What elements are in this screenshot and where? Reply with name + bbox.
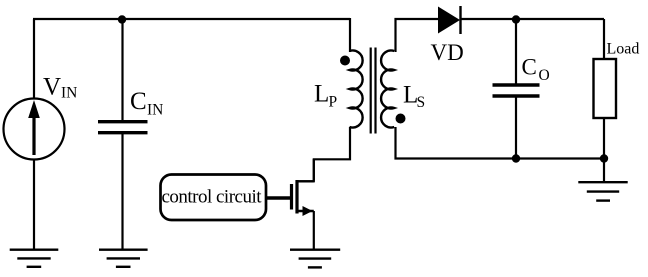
svg-text:control circuit: control circuit — [162, 187, 263, 208]
svg-text:VD: VD — [431, 40, 464, 65]
wire: secondary top lead — [396, 19, 439, 52]
wire: gate lead — [267, 196, 291, 200]
svg-text:S: S — [417, 94, 426, 111]
wire: secondary bottom rail — [396, 127, 605, 159]
wire: load bottom lead — [603, 118, 605, 182]
label Load — [607, 41, 640, 58]
label CO — [522, 55, 550, 85]
svg-text:IN: IN — [61, 85, 77, 102]
label VIN — [43, 74, 77, 102]
node: CO bottom junction dot — [512, 154, 520, 162]
inductor LP: transformer primary winding — [350, 51, 363, 128]
voltage source VIN — [4, 99, 65, 160]
transformer core — [371, 48, 376, 134]
transistor Q1: MOSFET — [292, 180, 314, 216]
diode VD — [438, 6, 461, 34]
resistor: Load — [594, 59, 617, 118]
label LS — [403, 82, 425, 112]
label VD — [431, 40, 464, 65]
wire: load top lead — [603, 19, 605, 59]
ground: MOSFET source ground — [290, 250, 340, 268]
wire: drain riser — [313, 159, 315, 181]
ground: VIN ground — [10, 250, 59, 267]
ground: CIN ground — [99, 250, 148, 267]
control circuit box — [161, 175, 267, 221]
node: secondary phase dot — [396, 114, 406, 124]
node: CO top junction dot — [512, 15, 520, 23]
ground: output ground — [578, 182, 627, 200]
wire: CIN top lead — [121, 19, 123, 121]
svg-text:IN: IN — [147, 102, 163, 119]
svg-text:Load: Load — [607, 41, 640, 58]
svg-text:C: C — [522, 55, 537, 80]
capacitor CO — [493, 85, 540, 96]
node: primary phase dot — [340, 56, 350, 66]
svg-text:V: V — [43, 74, 61, 101]
svg-text:O: O — [539, 67, 550, 84]
node: load bottom junction dot — [600, 154, 608, 162]
label CIN — [130, 88, 163, 119]
wire: CO bottom lead — [515, 98, 517, 159]
svg-text:C: C — [130, 88, 147, 115]
wire: CO top lead — [515, 19, 517, 84]
wire: top rail left — [33, 18, 350, 20]
svg-text:L: L — [314, 81, 329, 108]
node: input junction dot — [118, 15, 126, 23]
wire: primary top lead — [349, 18, 351, 52]
label LP — [314, 81, 337, 111]
wire: CIN bottom lead — [121, 134, 123, 250]
wire: primary bottom lead to drain — [297, 127, 350, 181]
svg-text:P: P — [329, 94, 338, 111]
capacitor CIN — [98, 122, 148, 133]
wire: top rail right — [461, 18, 605, 20]
wire: VIN top lead — [33, 19, 35, 99]
wire: VIN bottom lead — [33, 159, 35, 250]
wire: source to ground — [313, 211, 315, 250]
inductor LS: transformer secondary winding — [381, 51, 394, 128]
